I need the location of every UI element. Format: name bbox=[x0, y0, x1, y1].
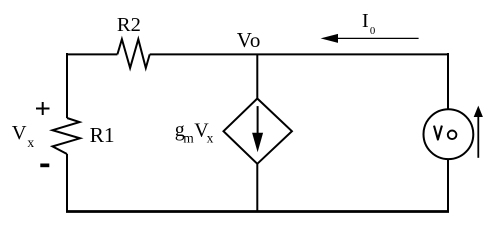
dependent current source G1 = gmVx (diamond) bbox=[224, 99, 292, 164]
wire: middle vertical lower (dependent source to bottom wire) bbox=[256, 163, 258, 213]
svg-text:x: x bbox=[207, 131, 214, 146]
plus sign (polarity of Vx) bbox=[36, 102, 50, 115]
label Vo inside circle (drawn glyphs: narrow V and round o) bbox=[434, 126, 442, 140]
svg-text:V: V bbox=[12, 122, 27, 144]
svg-text:m: m bbox=[183, 131, 194, 146]
wire: top-left corner to R2 bbox=[67, 53, 117, 55]
wire: left vertical lower (R1 to bottom-left corner) bbox=[66, 154, 68, 213]
svg-text:R1: R1 bbox=[90, 123, 115, 147]
wire: middle vertical upper (node Vo to dependent source) bbox=[256, 54, 258, 100]
wire: right vertical lower (source circle to bottom-right corner) bbox=[447, 159, 449, 212]
wire: left vertical upper (node to R1) bbox=[66, 53, 68, 118]
wire: bottom horizontal bbox=[66, 210, 449, 213]
arrow inside dependent source G1 (downward current direction) bbox=[257, 106, 259, 136]
arrow beside voltage source (upward) bbox=[477, 114, 479, 158]
current arrow I0 (leftward) bbox=[335, 37, 419, 39]
svg-text:I: I bbox=[362, 10, 369, 32]
wire: right vertical upper (top-right corner to source circle) bbox=[447, 53, 449, 110]
wire: R2 to top-right corner (through node Vo) bbox=[150, 53, 448, 55]
minus sign (polarity of Vx) bbox=[40, 164, 49, 168]
svg-text:Vo: Vo bbox=[237, 28, 261, 52]
voltage source Vo (circle) bbox=[424, 109, 474, 159]
svg-text:0: 0 bbox=[370, 25, 375, 37]
svg-text:x: x bbox=[27, 135, 34, 150]
svg-text:R2: R2 bbox=[117, 14, 141, 36]
resistor R1 (zigzag body) bbox=[53, 118, 81, 154]
resistor R2 (zigzag body) bbox=[117, 39, 149, 68]
